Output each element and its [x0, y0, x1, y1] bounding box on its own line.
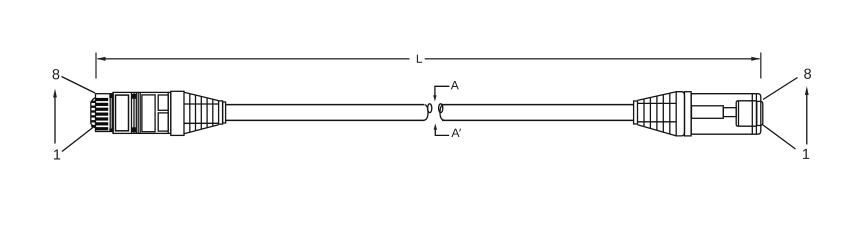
cable left segment top line [226, 104, 425, 106]
dimension L witness line right [760, 53, 762, 79]
latch arm [692, 106, 724, 119]
label 8 right [804, 69, 811, 79]
split section top rect [158, 95, 168, 110]
tab inner line [738, 101, 740, 126]
label 8 left [53, 69, 60, 79]
plug body outline [113, 92, 168, 133]
cable left break end [424, 105, 429, 121]
pin direction arrow right [806, 93, 808, 145]
label A' [451, 129, 459, 137]
bottom-right notch [109, 128, 112, 131]
leader from 1 to connector bottom [62, 127, 94, 152]
boot collar double line [170, 92, 172, 133]
dimension L witness line left [95, 53, 97, 79]
boot wide band [171, 91, 184, 135]
boot exit collar A [219, 101, 223, 124]
pin direction arrow left [54, 96, 56, 144]
inner tall rectangle [142, 95, 155, 132]
plug body outline [691, 94, 761, 135]
dimension arrow right [751, 57, 760, 61]
dimension L line left part [98, 58, 410, 60]
boot ribs [189, 94, 191, 133]
dimension arrow left [97, 57, 106, 61]
plug nose (front chamfered face) [91, 98, 96, 129]
top-right latch notch [109, 94, 112, 98]
boot wide band A [676, 92, 684, 136]
boot taper outline top [638, 92, 677, 101]
leader from connector to 8 [763, 78, 798, 100]
boot inner bore lines [638, 102, 677, 104]
boot wide band B [685, 92, 692, 136]
plug tip [757, 101, 763, 125]
cable right break end [440, 105, 445, 121]
split section bottom rect [158, 113, 168, 131]
body mid vertical lines [137, 92, 139, 133]
cable left segment bottom line [226, 119, 425, 121]
divider strip lines [131, 92, 133, 133]
section mark A' bracket [435, 129, 449, 135]
inner vertical line at body front [112, 92, 114, 133]
label 1 left [54, 150, 60, 160]
boot entry collar [634, 101, 638, 124]
boot taper outline top [184, 92, 219, 100]
cable right segment bottom line [442, 119, 634, 121]
boot ribs [643, 99, 645, 127]
front block inner vertical line [109, 98, 111, 128]
cable right segment top line [442, 104, 634, 106]
boot taper outline bottom [638, 125, 677, 136]
connector top/bottom bridge lines [168, 91, 171, 93]
boot taper outline bottom [184, 125, 219, 134]
contact comb teeth [91, 101, 95, 103]
latch neck [723, 108, 736, 117]
leader from 8 to connector top [62, 77, 96, 94]
dimension L line right part [425, 58, 760, 60]
strip top notch [132, 94, 137, 99]
body end vertical lines [751, 94, 753, 135]
leader from connector to 1 [763, 125, 796, 149]
8 contact bars [96, 98, 108, 130]
section mark A bracket [435, 86, 450, 96]
label A [451, 81, 459, 89]
boot inner bore lines [184, 103, 219, 105]
front contact block outline [96, 94, 113, 132]
label L [417, 55, 422, 63]
latch tab [736, 101, 757, 126]
label 1 right [803, 149, 809, 159]
boot exit collar B [223, 102, 226, 123]
latch window rectangle [116, 95, 129, 131]
strip bottom notch [132, 127, 137, 132]
